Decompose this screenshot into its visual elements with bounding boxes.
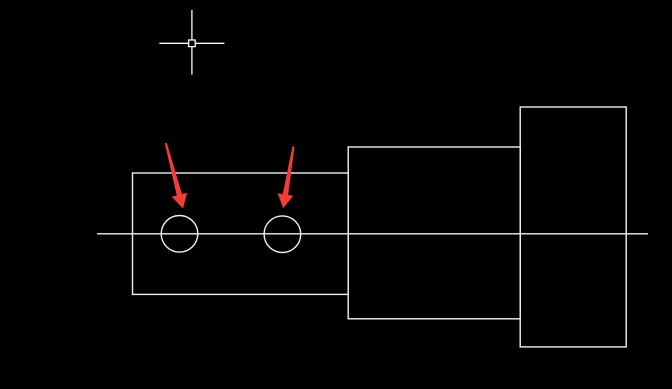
crosshair cursor <box>159 10 224 75</box>
pickbox <box>189 40 196 47</box>
centerline <box>97 233 648 235</box>
right hole circle <box>264 216 301 253</box>
left red arrow <box>165 143 187 209</box>
crosshair vertical line <box>191 10 193 75</box>
left hole circle <box>161 216 198 253</box>
right red arrow <box>278 146 295 208</box>
left rectangle <box>133 173 349 294</box>
crosshair horizontal line <box>159 42 224 44</box>
right rectangle <box>520 107 626 347</box>
middle rectangle <box>348 147 520 319</box>
